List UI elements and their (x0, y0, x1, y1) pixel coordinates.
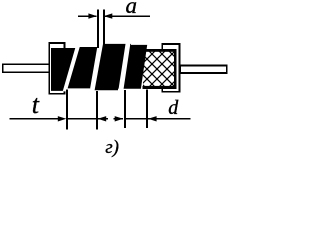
svg-text:г): г) (105, 137, 119, 158)
svg-text:a: a (126, 0, 138, 18)
svg-text:d: d (168, 97, 179, 119)
svg-text:t: t (32, 90, 40, 119)
